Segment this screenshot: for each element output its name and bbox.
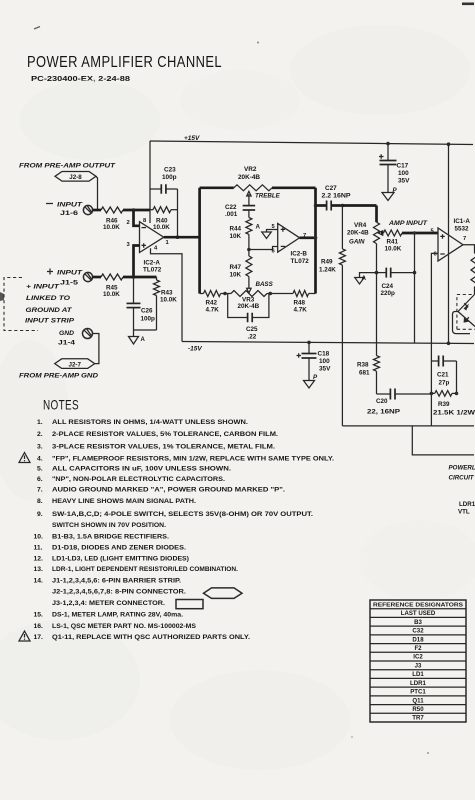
svg-text:100: 100 xyxy=(319,358,330,365)
capacitor C23 xyxy=(150,188,162,190)
svg-text:J3: J3 xyxy=(415,662,422,669)
capacitor C18 xyxy=(307,341,311,345)
junction dot output node xyxy=(314,236,318,240)
svg-text:ALL RESISTORS IN OHMS, 1/4-WAT: ALL RESISTORS IN OHMS, 1/4-WATT UNLESS S… xyxy=(52,419,248,426)
svg-text:VTL: VTL xyxy=(458,509,470,516)
junction dot R39 left xyxy=(430,392,434,396)
resistor R42 xyxy=(204,291,221,297)
resistor R46 xyxy=(101,207,123,213)
junction dot R39 right xyxy=(455,392,459,396)
svg-text:A: A xyxy=(141,337,146,343)
svg-text:VR2: VR2 xyxy=(244,166,257,173)
svg-text:J1-6: J1-6 xyxy=(60,210,79,217)
svg-text:C17: C17 xyxy=(397,163,409,170)
potentiometer VR2 TREBLE xyxy=(234,185,272,191)
wire J1-4 to J2-7 xyxy=(93,334,99,364)
svg-text:C27: C27 xyxy=(325,185,337,192)
speck marks xyxy=(34,27,40,30)
junction dot C27 node xyxy=(314,204,318,208)
svg-text:GROUND AT: GROUND AT xyxy=(26,307,74,314)
svg-text:13.: 13. xyxy=(34,566,44,573)
svg-text:C25: C25 xyxy=(246,326,258,333)
junction dot VR3 left xyxy=(221,293,231,295)
svg-text:100: 100 xyxy=(398,170,409,177)
resistor R44 xyxy=(246,218,252,235)
label + INPUT J1-5 xyxy=(47,269,53,275)
svg-text:J1-4: J1-4 xyxy=(58,340,76,347)
svg-text:TL072: TL072 xyxy=(143,267,162,274)
wire tone top xyxy=(200,186,234,189)
svg-text:C22: C22 xyxy=(225,204,237,211)
capacitor C26 xyxy=(133,277,135,304)
svg-text:220p: 220p xyxy=(381,290,396,297)
svg-text:R43: R43 xyxy=(161,290,173,297)
svg-text:INPUT: INPUT xyxy=(57,270,84,277)
wire C27 to VR4 xyxy=(342,204,376,207)
wire to power limiter circuit xyxy=(342,425,474,427)
svg-text:P: P xyxy=(313,374,318,381)
VR4 wiper to R41 xyxy=(381,232,383,234)
potentiometer VR3 BASS xyxy=(231,291,267,297)
wire IC1-A pin6 feedback xyxy=(431,253,438,426)
svg-text:LDR-1, LIGHT DEPENDENT RESISTO: LDR-1, LIGHT DEPENDENT RESISTOR/LED COMB… xyxy=(52,566,238,573)
svg-text:SWITCH SHOWN IN 70V POSITION.: SWITCH SHOWN IN 70V POSITION. xyxy=(52,522,166,529)
potentiometer VR4 GAIN xyxy=(374,222,380,243)
-15V rail wire xyxy=(182,342,474,344)
svg-text:10.: 10. xyxy=(34,534,44,541)
svg-text:3: 3 xyxy=(127,242,131,248)
svg-text:8: 8 xyxy=(143,218,147,224)
svg-text:2: 2 xyxy=(127,220,130,226)
resistor R43 xyxy=(156,277,158,280)
svg-text:D1-D18, DIODES AND ZENER DIODE: D1-D18, DIODES AND ZENER DIODES. xyxy=(52,545,186,552)
svg-text:35V: 35V xyxy=(319,366,331,373)
svg-text:D18: D18 xyxy=(412,636,424,643)
capacitor C24 xyxy=(377,272,387,274)
svg-text:J1-1,2,3,4,5,6: 6-PIN BARRIER: J1-1,2,3,4,5,6: 6-PIN BARRIER STRIP. xyxy=(52,578,181,585)
junction dot +15V/IC1 supply xyxy=(447,142,451,146)
resistor R49 xyxy=(341,206,343,249)
svg-text:12.: 12. xyxy=(34,556,44,563)
svg-text:16.: 16. xyxy=(34,623,44,630)
svg-text:2-PLACE RESISTOR VALUES, 5% TO: 2-PLACE RESISTOR VALUES, 5% TOLERANCE, C… xyxy=(52,431,278,438)
svg-text:6: 6 xyxy=(272,249,276,255)
svg-text:21.5K 1/2W: 21.5K 1/2W xyxy=(433,410,475,417)
svg-text:"NP", NON-POLAR ELECTROLYTIC C: "NP", NON-POLAR ELECTROLYTIC CAPACITORS. xyxy=(52,476,225,483)
svg-text:C26: C26 xyxy=(141,308,153,315)
svg-text:NOTES: NOTES xyxy=(43,397,79,413)
svg-text:7.: 7. xyxy=(37,487,43,494)
label - INPUT J1-6 xyxy=(46,203,53,205)
svg-text:4.7K: 4.7K xyxy=(294,307,308,314)
svg-text:R47: R47 xyxy=(230,264,242,271)
wire IC2-A output to tone network xyxy=(164,236,200,239)
junction dot feedback/output xyxy=(176,235,180,239)
svg-text:1: 1 xyxy=(166,240,170,246)
hexagon symbol 8-pin connector xyxy=(204,588,243,599)
svg-text:ALL CAPACITORS IN uF, 100V UNL: ALL CAPACITORS IN uF, 100V UNLESS SHOWN. xyxy=(52,466,231,473)
svg-text:100p: 100p xyxy=(141,316,156,323)
svg-text:20K-4B: 20K-4B xyxy=(238,303,260,310)
svg-text:R39: R39 xyxy=(438,401,450,408)
svg-text:C21: C21 xyxy=(437,372,449,379)
warning triangle note 17 xyxy=(19,631,30,641)
op-amp IC1-A xyxy=(438,228,463,261)
junction dot C24 right xyxy=(413,271,417,275)
svg-text:R49: R49 xyxy=(321,259,333,266)
svg-text:2.: 2. xyxy=(37,431,43,438)
svg-text:10.0K: 10.0K xyxy=(103,291,120,298)
wire J1-6 to R46 xyxy=(93,209,101,212)
resistor R40 xyxy=(150,209,153,211)
connector J2-7 hexagon xyxy=(55,359,95,369)
svg-text:IC2: IC2 xyxy=(413,654,423,661)
ground P at C17 xyxy=(382,193,394,201)
svg-text:1.: 1. xyxy=(37,419,43,426)
diode D up xyxy=(458,295,475,312)
svg-text:6.: 6. xyxy=(37,476,43,483)
resistor R47 xyxy=(248,250,250,257)
svg-text:TREBLE: TREBLE xyxy=(255,193,281,200)
svg-text:Q1-11, REPLACE WITH QSC AUTHOR: Q1-11, REPLACE WITH QSC AUTHORIZED PARTS… xyxy=(52,634,250,641)
resistor R38 xyxy=(374,356,380,372)
wire R44 to node xyxy=(248,234,250,249)
svg-text:6: 6 xyxy=(434,252,438,258)
resistor R50 (cut at page edge) xyxy=(471,253,475,287)
+15V rail wire xyxy=(150,141,473,145)
svg-text:A: A xyxy=(362,275,367,282)
resistor R48 xyxy=(293,291,309,297)
svg-text:R42: R42 xyxy=(206,300,218,307)
svg-text:C32: C32 xyxy=(412,628,424,635)
connector J1-4 xyxy=(83,329,93,339)
svg-text:LDR1: LDR1 xyxy=(410,680,427,687)
svg-text:14.: 14. xyxy=(34,578,44,585)
svg-text:DS-1, METER LAMP, RATING 28V,: DS-1, METER LAMP, RATING 28V, 40ma. xyxy=(52,612,183,619)
capacitor C21 xyxy=(431,360,438,362)
svg-text:20K-4B: 20K-4B xyxy=(347,230,369,237)
svg-text:J2-7: J2-7 xyxy=(69,361,82,368)
svg-text:4.7K: 4.7K xyxy=(206,307,220,314)
wire IC2-A pin4 to -15V xyxy=(151,248,183,341)
svg-text:BASS: BASS xyxy=(256,281,274,288)
wire VR4 bottom xyxy=(376,244,378,356)
wire tone bottom left xyxy=(200,293,204,295)
svg-text:15.: 15. xyxy=(34,612,44,619)
svg-text:LAST USED: LAST USED xyxy=(401,610,436,617)
svg-text:R41: R41 xyxy=(387,239,399,246)
wire J1-5 to R45 xyxy=(93,276,101,279)
svg-text:9.: 9. xyxy=(37,511,43,518)
svg-text:R44: R44 xyxy=(230,226,242,233)
svg-text:10.0K: 10.0K xyxy=(160,297,177,304)
svg-text:8.: 8. xyxy=(37,498,43,505)
wire limiter bracket xyxy=(453,312,471,334)
connector J1-5 xyxy=(83,272,92,281)
wire node to IC2-B pin6 xyxy=(249,247,278,250)
svg-text:C23: C23 xyxy=(164,167,176,174)
svg-text:HEAVY LINE SHOWS MAIN SIGNAL P: HEAVY LINE SHOWS MAIN SIGNAL PATH. xyxy=(52,498,196,505)
ground A at IC2-B pin5 xyxy=(262,232,272,239)
svg-text:+15V: +15V xyxy=(184,135,200,142)
svg-text:INPUT STRIP: INPUT STRIP xyxy=(25,318,75,325)
svg-text:LD1-LD3, LED (LIGHT EMITTING D: LD1-LD3, LED (LIGHT EMITTING DIODES) xyxy=(52,556,189,563)
svg-text:R50: R50 xyxy=(412,706,424,713)
svg-text:LD1: LD1 xyxy=(412,671,424,678)
svg-text:SW-1A,B,C,D; 4-POLE SWITCH, S: SW-1A,B,C,D; 4-POLE SWITCH, SELECTS 35V(… xyxy=(52,511,313,518)
wire J2-8 to input line xyxy=(96,176,98,210)
dashed note bracket xyxy=(4,278,38,331)
ground P at C18 xyxy=(304,381,315,389)
ground A at C26 xyxy=(129,337,139,345)
svg-text:27p: 27p xyxy=(439,380,450,387)
wire VR4 top lead xyxy=(375,206,378,223)
junction dot +15V/C17 xyxy=(386,142,390,146)
resistor R45 xyxy=(101,274,123,280)
svg-text:J2-1,2,3,4,5,6,7,8: 8-PIN CON: J2-1,2,3,4,5,6,7,8: 8-PIN CONNECTOR. xyxy=(52,589,186,596)
svg-text:3.: 3. xyxy=(37,444,43,451)
svg-text:10.0K: 10.0K xyxy=(153,224,170,231)
svg-text:17.: 17. xyxy=(34,634,44,641)
wire R43/C26 to ground xyxy=(134,329,157,331)
svg-text:100p: 100p xyxy=(162,174,177,181)
wire C24 node vertical xyxy=(414,233,416,343)
svg-text:C24: C24 xyxy=(382,283,394,290)
svg-text:FROM PRE-AMP OUTPUT: FROM PRE-AMP OUTPUT xyxy=(19,163,116,170)
svg-text:"FP", FLAMEPROOF RESISTORS, MI: "FP", FLAMEPROOF RESISTORS, MIN 1/2W, RE… xyxy=(52,456,334,463)
svg-text:10K: 10K xyxy=(230,272,242,279)
svg-text:J2-8: J2-8 xyxy=(69,174,82,181)
svg-text:.22: .22 xyxy=(248,334,257,341)
junction dot inverting input node xyxy=(132,208,136,212)
wire to ground A xyxy=(360,273,377,278)
svg-text:FROM PRE-AMP GND: FROM PRE-AMP GND xyxy=(19,373,99,380)
svg-text:PTC1: PTC1 xyxy=(410,689,426,696)
svg-text:35V: 35V xyxy=(398,178,410,185)
svg-text:REFERENCE DESIGNATORS: REFERENCE DESIGNATORS xyxy=(373,602,463,608)
svg-text:+ INPUT: + INPUT xyxy=(26,284,61,291)
resistor R39 xyxy=(431,392,434,394)
svg-text:R48: R48 xyxy=(294,300,306,307)
op-amp IC2-A xyxy=(140,222,164,253)
svg-text:IC1-A: IC1-A xyxy=(454,218,471,225)
connector J2-8 hexagon xyxy=(55,172,96,182)
svg-text:20K-4B: 20K-4B xyxy=(238,174,260,181)
junction dot -15V/IC1 supply xyxy=(447,342,451,346)
svg-text:R38: R38 xyxy=(357,362,369,369)
svg-text:.001: .001 xyxy=(225,211,238,218)
junction dot non-inverting node xyxy=(132,275,136,279)
svg-text:F2: F2 xyxy=(414,645,422,652)
wire R46 to IC2-A pin2 node xyxy=(123,209,150,212)
svg-text:GND: GND xyxy=(59,330,74,337)
VR2 wiper xyxy=(248,194,250,206)
wire pin5 to ground xyxy=(267,230,278,233)
svg-text:A: A xyxy=(256,224,261,231)
svg-text:10K: 10K xyxy=(230,233,242,240)
wire node to pin2 xyxy=(134,210,140,226)
capacitor C17 xyxy=(387,144,389,161)
wire R41 to IC1-A pin5 xyxy=(402,232,438,235)
rectangle symbol meter connector xyxy=(176,600,203,609)
svg-text:-15V: -15V xyxy=(188,346,202,353)
svg-text:4.: 4. xyxy=(37,456,43,463)
wire IC2-A pin8 to +15V xyxy=(149,141,151,223)
svg-text:22, 16NP: 22, 16NP xyxy=(367,409,400,416)
svg-text:C20: C20 xyxy=(376,398,388,405)
svg-text:5532: 5532 xyxy=(455,226,470,233)
connector J1-6 xyxy=(83,205,92,214)
junction dot C27 right xyxy=(341,204,345,208)
wire feedback right side xyxy=(177,189,179,237)
svg-text:TR7: TR7 xyxy=(412,715,424,722)
svg-text:LDR1: LDR1 xyxy=(459,501,475,508)
svg-text:IC2-B: IC2-B xyxy=(291,251,308,258)
wire pin3 to + input node xyxy=(134,246,140,278)
svg-text:INPUT: INPUT xyxy=(57,202,84,209)
wire R45 to node and R43 xyxy=(123,276,157,279)
svg-text:AUDIO GROUND MARKED "A", POWER: AUDIO GROUND MARKED "A", POWER GROUND MA… xyxy=(52,487,285,494)
resistor R41 xyxy=(381,232,384,235)
svg-text:Q11: Q11 xyxy=(412,697,424,704)
warning triangle note 4 xyxy=(19,453,30,463)
svg-text:2.2 16NP: 2.2 16NP xyxy=(322,193,352,200)
svg-text:IC2-A: IC2-A xyxy=(144,260,161,267)
svg-text:CIRCUIT: CIRCUIT xyxy=(449,475,475,482)
capacitor C27 xyxy=(316,204,327,207)
junction dot pin5 node xyxy=(413,231,417,235)
svg-text:3-PLACE RESISTOR VALUES, 1% TO: 3-PLACE RESISTOR VALUES, 1% TOLERANCE, M… xyxy=(52,444,275,451)
ground A near VR4 xyxy=(355,278,365,285)
capacitor C25 xyxy=(228,294,248,318)
svg-text:10.0K: 10.0K xyxy=(385,246,402,253)
svg-text:J3-1,2,3,4: METER CONNECTOR.: J3-1,2,3,4: METER CONNECTOR. xyxy=(52,600,165,607)
svg-text:LINKED TO: LINKED TO xyxy=(26,295,70,302)
svg-text:681: 681 xyxy=(359,370,370,377)
wire IC1 supply vertical xyxy=(448,144,450,343)
svg-text:TL072: TL072 xyxy=(291,258,310,265)
svg-text:C18: C18 xyxy=(318,351,330,358)
diode D down xyxy=(458,312,475,327)
node tone network left xyxy=(198,188,201,294)
wire IC1-A output xyxy=(463,245,475,253)
svg-text:POWER AMPLIFIER CHANNEL: POWER AMPLIFIER CHANNEL xyxy=(27,54,222,71)
dashed box limiter diodes xyxy=(457,295,475,330)
svg-text:5.: 5. xyxy=(37,466,43,473)
svg-text:AMP INPUT: AMP INPUT xyxy=(388,220,428,227)
op-amp IC2-B xyxy=(278,223,300,252)
capacitor C20 xyxy=(377,393,391,395)
svg-text:J1-5: J1-5 xyxy=(60,280,79,287)
svg-text:P: P xyxy=(393,187,398,194)
svg-text:B1-B3, 1.5A BRIDGE RECTIFIERS.: B1-B3, 1.5A BRIDGE RECTIFIERS. xyxy=(52,534,169,541)
svg-text:1.24K: 1.24K xyxy=(319,267,336,274)
svg-text:LS-1, QSC METER PART NO. MS-10: LS-1, QSC METER PART NO. MS-100002-MS xyxy=(52,623,196,630)
svg-text:B3: B3 xyxy=(414,619,422,626)
wire R47 to VR3 wiper xyxy=(248,277,250,289)
junction dot tone mid node xyxy=(247,248,251,252)
capacitor C22 xyxy=(243,205,256,207)
svg-text:GAIN: GAIN xyxy=(349,239,365,246)
svg-text:7: 7 xyxy=(463,236,466,242)
wire IC2-B output xyxy=(300,236,316,239)
reference designators table xyxy=(370,600,466,722)
node tone network right xyxy=(314,188,317,294)
svg-text:POWERLIMI: POWERLIMI xyxy=(449,465,475,472)
svg-text:VR4: VR4 xyxy=(354,222,367,229)
svg-text:4: 4 xyxy=(154,246,158,252)
svg-text:10.0K: 10.0K xyxy=(103,224,120,231)
junction dot VR4 bottom node xyxy=(375,271,379,275)
junction dot VR3 right xyxy=(267,293,293,295)
svg-text:11.: 11. xyxy=(34,545,43,552)
